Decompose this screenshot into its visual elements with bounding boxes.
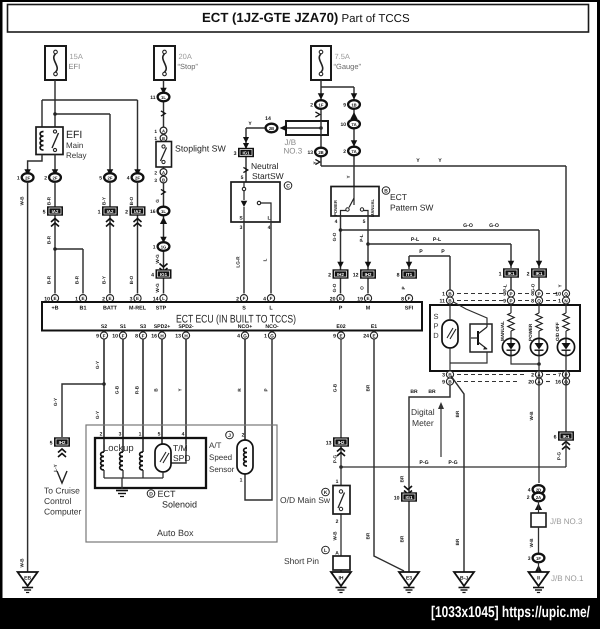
svg-text:IH2: IH2: [337, 272, 344, 277]
svg-text:2: 2: [531, 373, 534, 379]
svg-text:16: 16: [555, 380, 561, 386]
svg-text:11: 11: [440, 299, 446, 305]
svg-text:T/M: T/M: [173, 443, 188, 453]
svg-text:24: 24: [363, 334, 369, 340]
svg-text:Y: Y: [416, 158, 420, 164]
svg-text:B: B: [162, 177, 165, 182]
svg-text:J/B NO.1: J/B NO.1: [551, 574, 584, 583]
svg-text:P: P: [433, 322, 438, 331]
svg-text:4: 4: [528, 488, 531, 494]
svg-text:IG1: IG1: [405, 495, 413, 500]
svg-text:5: 5: [99, 176, 102, 182]
svg-text:BR: BR: [455, 410, 460, 417]
svg-text:ECT: ECT: [390, 192, 407, 202]
svg-text:B1: B1: [80, 306, 87, 312]
svg-text:P-L: P-L: [503, 284, 508, 292]
svg-text:2F: 2F: [108, 175, 113, 180]
svg-text:G-Y: G-Y: [95, 361, 100, 369]
svg-text:1: 1: [139, 432, 142, 438]
svg-text:A: A: [162, 128, 165, 133]
svg-text:S1: S1: [120, 324, 126, 330]
svg-text:5: 5: [158, 432, 161, 438]
svg-text:G-O: G-O: [463, 223, 473, 229]
svg-text:IA2: IA2: [134, 209, 141, 214]
svg-text:B: B: [384, 189, 388, 195]
svg-text:W-B: W-B: [20, 558, 25, 568]
svg-text:10: 10: [340, 122, 346, 128]
svg-text:S: S: [433, 312, 438, 321]
svg-text:9: 9: [333, 334, 336, 340]
svg-text:ECT: ECT: [158, 489, 177, 499]
svg-text:E: E: [108, 296, 111, 301]
svg-text:P-L: P-L: [433, 237, 442, 243]
svg-text:STP: STP: [156, 306, 167, 312]
svg-text:7: 7: [558, 373, 561, 379]
svg-text:O: O: [360, 286, 365, 290]
svg-text:BR: BR: [400, 535, 405, 542]
svg-text:ECT (1JZ-GTE JZA70) Part of T: ECT (1JZ-GTE JZA70) Part of TCCS: [202, 10, 410, 25]
svg-text:Pattern SW: Pattern SW: [390, 203, 433, 213]
svg-text:W-B: W-B: [333, 531, 338, 541]
svg-text:P: P: [509, 291, 512, 296]
svg-text:G: G: [155, 199, 160, 203]
svg-text:IK1: IK1: [563, 434, 570, 439]
svg-text:BR: BR: [410, 389, 418, 395]
svg-text:SFI: SFI: [405, 306, 414, 312]
svg-text:20A: 20A: [179, 52, 192, 61]
svg-text:G-Y: G-Y: [95, 411, 100, 419]
svg-text:2F: 2F: [135, 175, 140, 180]
svg-text:B-R: B-R: [47, 275, 52, 284]
svg-text:P-L: P-L: [359, 234, 364, 242]
svg-text:G: G: [243, 333, 247, 338]
svg-text:Auto Box: Auto Box: [157, 528, 194, 538]
svg-text:Y: Y: [313, 161, 318, 164]
svg-text:Control: Control: [44, 496, 72, 506]
svg-text:P: P: [339, 306, 343, 312]
svg-text:1F: 1F: [319, 102, 324, 107]
svg-text:E: E: [136, 296, 139, 301]
svg-text:5: 5: [363, 219, 366, 225]
svg-text:StartSW: StartSW: [252, 171, 284, 181]
svg-text:L: L: [162, 296, 165, 301]
svg-text:F: F: [103, 333, 106, 338]
svg-text:E3: E3: [406, 576, 412, 582]
svg-text:2A: 2A: [536, 495, 541, 500]
svg-text:E: E: [372, 333, 375, 338]
svg-text:BR: BR: [455, 538, 460, 545]
svg-text:5: 5: [43, 209, 46, 215]
svg-text:B-Y: B-Y: [102, 197, 107, 205]
svg-text:P-G: P-G: [419, 460, 428, 466]
svg-text:IK1: IK1: [508, 271, 515, 276]
svg-text:1: 1: [336, 479, 339, 485]
svg-text:To Cruise: To Cruise: [44, 486, 80, 496]
svg-text:IT1: IT1: [406, 272, 413, 277]
svg-text:P-G: P-G: [448, 460, 457, 466]
svg-text:3: 3: [154, 178, 157, 184]
svg-text:LG-R: LG-R: [236, 256, 241, 268]
svg-text:2: 2: [154, 170, 157, 176]
svg-text:E: E: [366, 296, 369, 301]
svg-text:Computer: Computer: [44, 507, 81, 517]
svg-text:F: F: [142, 333, 145, 338]
svg-text:J: J: [228, 433, 231, 439]
svg-text:POWER: POWER: [333, 200, 338, 216]
svg-text:B-R: B-R: [47, 235, 52, 244]
svg-text:9: 9: [503, 292, 506, 298]
svg-text:IG1: IG1: [160, 272, 168, 277]
svg-text:5: 5: [50, 440, 53, 446]
svg-text:1F: 1F: [536, 556, 541, 561]
svg-text:1: 1: [17, 176, 20, 182]
svg-text:2: 2: [527, 495, 530, 501]
svg-text:NO.3: NO.3: [284, 147, 303, 156]
svg-text:P: P: [264, 388, 269, 391]
svg-text:B-J: B-J: [460, 576, 468, 582]
svg-text:P: P: [441, 249, 445, 255]
svg-text:7A: 7A: [351, 149, 356, 154]
svg-text:M: M: [366, 306, 371, 312]
svg-text:1L: 1L: [161, 209, 166, 214]
svg-text:EB: EB: [24, 576, 31, 582]
svg-text:2: 2: [100, 432, 103, 438]
svg-text:IH2: IH2: [338, 440, 345, 445]
svg-text:“Gauge”: “Gauge”: [334, 62, 362, 71]
svg-text:B-R: B-R: [47, 196, 52, 205]
svg-text:2: 2: [328, 272, 331, 278]
svg-text:Y: Y: [178, 388, 183, 391]
svg-text:Neutral: Neutral: [251, 161, 279, 171]
svg-text:2: 2: [44, 176, 47, 182]
svg-text:L: L: [263, 258, 268, 261]
svg-text:Digital: Digital: [411, 407, 435, 417]
svg-text:Short Pin: Short Pin: [284, 556, 319, 566]
svg-text:2B: 2B: [269, 126, 274, 131]
svg-text:F: F: [122, 333, 125, 338]
svg-text:POWER: POWER: [528, 323, 533, 341]
svg-text:9: 9: [343, 103, 346, 109]
svg-text:EFI: EFI: [66, 129, 82, 141]
svg-text:1: 1: [558, 299, 561, 305]
svg-text:IA2: IA2: [52, 209, 59, 214]
svg-text:D: D: [433, 331, 439, 340]
svg-text:C: C: [286, 184, 290, 190]
svg-text:Sensor: Sensor: [209, 465, 235, 474]
svg-text:E: E: [339, 296, 342, 301]
svg-text:13: 13: [307, 150, 313, 156]
svg-text:Y: Y: [346, 175, 351, 178]
svg-text:G: G: [270, 333, 274, 338]
svg-text:O/D OFF: O/D OFF: [555, 322, 560, 341]
svg-text:D: D: [149, 492, 153, 498]
svg-text:9: 9: [503, 299, 506, 305]
svg-text:SPD: SPD: [173, 453, 190, 463]
svg-text:G-B: G-B: [333, 383, 338, 392]
svg-text:F: F: [243, 296, 246, 301]
svg-text:4: 4: [335, 219, 338, 225]
svg-text:J/B NO.3: J/B NO.3: [550, 517, 583, 526]
svg-text:6: 6: [554, 434, 557, 440]
svg-text:P: P: [419, 249, 423, 255]
svg-text:Speed: Speed: [209, 453, 232, 462]
svg-text:IH: IH: [339, 576, 344, 582]
svg-text:16: 16: [151, 334, 157, 340]
svg-text:O/D Main Sw: O/D Main Sw: [280, 495, 331, 505]
svg-text:1: 1: [442, 292, 445, 298]
svg-text:W-B: W-B: [529, 538, 534, 548]
svg-text:G-B: G-B: [115, 385, 120, 394]
svg-text:Y: Y: [558, 284, 563, 287]
svg-text:8: 8: [135, 334, 138, 340]
svg-text:1L: 1L: [161, 95, 166, 100]
svg-text:A/T: A/T: [209, 441, 222, 450]
svg-text:S3: S3: [140, 324, 146, 330]
svg-text:10: 10: [394, 495, 400, 501]
svg-text:BATT: BATT: [103, 306, 118, 312]
svg-text:2: 2: [343, 149, 346, 155]
svg-text:IH2: IH2: [59, 440, 66, 445]
svg-text:B-O: B-O: [129, 275, 134, 284]
svg-text:10: 10: [112, 334, 118, 340]
svg-text:1: 1: [499, 271, 502, 277]
svg-text:16: 16: [150, 209, 156, 215]
svg-text:MANUAL: MANUAL: [500, 321, 505, 341]
svg-text:2: 2: [310, 103, 313, 109]
svg-text:W-G: W-G: [155, 283, 160, 293]
svg-text:“Stop”: “Stop”: [178, 62, 199, 71]
svg-text:BR: BR: [428, 389, 436, 395]
svg-text:SPD2+: SPD2+: [154, 324, 171, 330]
svg-text:11: 11: [150, 95, 156, 101]
svg-text:Solenoid: Solenoid: [162, 500, 197, 510]
svg-text:E: E: [81, 296, 84, 301]
svg-text:E: E: [53, 296, 56, 301]
svg-text:3: 3: [240, 225, 243, 231]
svg-text:NCO-: NCO-: [265, 324, 279, 330]
svg-text:S2: S2: [101, 324, 107, 330]
svg-text:L: L: [324, 548, 327, 554]
svg-text:W-B: W-B: [20, 196, 25, 206]
svg-text:2: 2: [242, 433, 245, 439]
svg-text:G-Y: G-Y: [53, 398, 58, 406]
svg-text:14: 14: [265, 116, 271, 122]
svg-text:B: B: [162, 136, 165, 141]
svg-text:M-REL: M-REL: [129, 306, 147, 312]
svg-text:L: L: [267, 216, 270, 222]
svg-text:MANUAL: MANUAL: [370, 198, 375, 217]
svg-text:Main: Main: [66, 141, 83, 150]
svg-text:2F: 2F: [53, 175, 58, 180]
svg-text:P: P: [509, 298, 512, 303]
svg-text:Y: Y: [438, 158, 442, 164]
svg-text:IH2: IH2: [365, 272, 372, 277]
svg-text:BR: BR: [400, 475, 405, 482]
svg-text:Q: Q: [537, 298, 541, 303]
svg-text:8: 8: [531, 299, 534, 305]
svg-text:1: 1: [98, 209, 101, 215]
svg-text:P-L: P-L: [411, 237, 420, 243]
svg-text:E: E: [339, 333, 342, 338]
svg-text:1: 1: [264, 334, 267, 340]
svg-text:W-B: W-B: [529, 411, 534, 421]
svg-text:2D: 2D: [536, 487, 541, 492]
svg-text:E1: E1: [371, 324, 377, 330]
svg-text:[1033x1045] https://upic.me/: [1033x1045] https://upic.me/: [431, 604, 591, 621]
svg-text:1: 1: [154, 129, 157, 135]
svg-text:7A: 7A: [351, 122, 356, 127]
svg-text:W-G: W-G: [155, 254, 160, 264]
svg-text:NCO+: NCO+: [238, 324, 253, 330]
svg-text:2: 2: [527, 271, 530, 277]
svg-text:F: F: [408, 296, 411, 301]
svg-text:Lockup: Lockup: [103, 443, 134, 454]
svg-text:4: 4: [237, 334, 240, 340]
svg-text:1: 1: [240, 478, 243, 484]
svg-text:BR: BR: [366, 532, 371, 539]
svg-text:Meter: Meter: [412, 418, 434, 428]
svg-text:2: 2: [336, 519, 339, 525]
svg-text:S: S: [242, 306, 246, 312]
svg-text:P: P: [401, 286, 406, 289]
svg-text:Relay: Relay: [66, 151, 86, 160]
svg-text:EFI: EFI: [69, 62, 81, 71]
svg-text:IA2: IA2: [107, 209, 114, 214]
svg-text:B-Y: B-Y: [102, 276, 107, 284]
svg-text:P-G: P-G: [557, 451, 562, 460]
svg-text:4: 4: [127, 176, 130, 182]
svg-text:1B: 1B: [351, 102, 356, 107]
svg-text:E02: E02: [336, 324, 345, 330]
svg-text:4: 4: [182, 432, 185, 438]
svg-text:F: F: [270, 296, 273, 301]
svg-text:2F: 2F: [25, 175, 30, 180]
svg-text:IG1: IG1: [242, 151, 250, 156]
svg-text:1G: 1G: [161, 244, 167, 249]
svg-text:L-Y: L-Y: [53, 464, 58, 471]
svg-text:13: 13: [326, 440, 332, 446]
svg-text:20: 20: [528, 380, 534, 386]
svg-text:P: P: [537, 291, 540, 296]
svg-text:4: 4: [151, 272, 154, 278]
svg-text:15A: 15A: [70, 52, 83, 61]
svg-text:BR: BR: [366, 384, 371, 391]
svg-text:SPD2-: SPD2-: [178, 324, 194, 330]
svg-text:+B: +B: [51, 306, 58, 312]
svg-text:5: 5: [241, 175, 244, 181]
svg-text:7.5A: 7.5A: [335, 52, 350, 61]
svg-text:A: A: [162, 170, 165, 175]
svg-text:8: 8: [531, 292, 534, 298]
svg-text:3: 3: [234, 151, 237, 157]
svg-text:3: 3: [442, 373, 445, 379]
svg-text:G-O: G-O: [489, 223, 499, 229]
svg-text:9: 9: [442, 380, 445, 386]
svg-text:4: 4: [268, 225, 271, 231]
svg-text:13: 13: [175, 334, 181, 340]
svg-text:3: 3: [528, 556, 531, 562]
svg-text:3: 3: [119, 432, 122, 438]
svg-text:2: 2: [125, 209, 128, 215]
svg-text:Q: Q: [564, 291, 568, 296]
svg-text:G-O: G-O: [332, 232, 337, 241]
svg-text:B-R: B-R: [75, 275, 80, 284]
svg-text:R-B: R-B: [135, 385, 140, 394]
svg-text:B-O: B-O: [129, 196, 134, 205]
svg-text:P-G: P-G: [333, 454, 338, 463]
svg-text:IK1: IK1: [536, 271, 543, 276]
svg-text:10: 10: [555, 292, 561, 298]
svg-text:1: 1: [153, 245, 156, 251]
svg-text:8: 8: [397, 272, 400, 278]
svg-text:12: 12: [353, 272, 359, 278]
svg-text:9: 9: [96, 334, 99, 340]
svg-text:2B: 2B: [318, 150, 323, 155]
svg-text:Stoplight SW: Stoplight SW: [175, 144, 227, 154]
svg-text:G-O: G-O: [332, 283, 337, 292]
